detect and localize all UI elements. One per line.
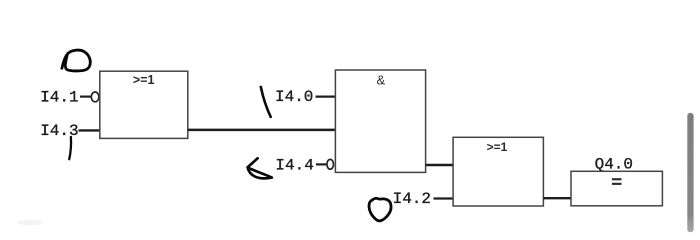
wire: I4.3 input stub [79, 129, 100, 131]
wire: OR2 output to coil [543, 197, 571, 199]
faint smudge bottom left [17, 220, 43, 225]
annotation: pen slash left of I4.0 [261, 87, 271, 117]
svg-text:>=1: >=1 [487, 140, 508, 154]
OR gate U3 box [453, 137, 543, 206]
OR gate U1 box [100, 71, 188, 138]
svg-text:I4.2: I4.2 [393, 190, 431, 208]
svg-text:&: & [376, 73, 385, 88]
negation circle on OR1 input I4.1 [91, 92, 99, 102]
annotation: pen check left of I4.4 [248, 158, 272, 178]
output coil U4 label = (two bars) [612, 178, 622, 180]
wire: I4.1 input stub [80, 95, 91, 97]
svg-text:I4.3: I4.3 [40, 122, 78, 140]
annotation: pen loop above OR1 [62, 50, 90, 71]
svg-text:I4.0: I4.0 [275, 88, 313, 106]
wire: I4.4 input stub [316, 163, 326, 165]
output coil U4 box [571, 171, 662, 206]
svg-text:>=1: >=1 [133, 73, 155, 87]
svg-text:I4.1: I4.1 [40, 89, 78, 107]
annotation: pen loop left of I4.2 [369, 198, 391, 221]
svg-text:I4.4: I4.4 [275, 157, 313, 175]
wire: OR1 output to AND input [188, 129, 336, 132]
annotation: pen tick below I4.3 [69, 137, 71, 159]
wire: I4.0 input stub [316, 95, 336, 97]
wire: I4.2 input stub [434, 197, 454, 199]
wire: AND output to OR2 input [426, 164, 454, 166]
scrollbar thumb at right edge [687, 113, 693, 233]
AND gate U2 box [335, 70, 425, 172]
negation circle on AND input I4.4 [327, 159, 334, 169]
